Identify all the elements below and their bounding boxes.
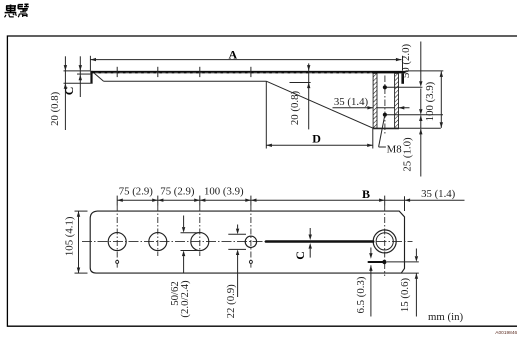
bracket vertical centerline [384, 76, 386, 134]
svg-text:100 (3.9): 100 (3.9) [204, 186, 244, 198]
dimension 22 (0.9) [236, 225, 239, 298]
arm bottom edge line [104, 80, 267, 82]
diagonal taper to bracket [266, 81, 373, 128]
svg-text:100 (3.9): 100 (3.9) [424, 81, 436, 121]
dimension A line with arrows [90, 58, 401, 61]
svg-text:B: B [362, 187, 370, 201]
svg-text:75 (2.9): 75 (2.9) [160, 186, 195, 198]
label 35 (1.4) right [421, 188, 456, 200]
hole 1 [108, 233, 126, 251]
svg-text:C: C [62, 87, 76, 96]
M8 hole lower (section dot) [383, 113, 387, 117]
dimension D extension lines [266, 81, 373, 148]
svg-text:20 (0.8): 20 (0.8) [49, 91, 61, 126]
bottom edge extension stub for middle 20-dim [290, 82, 311, 84]
small slot bottom right [369, 261, 383, 263]
label 35 (1.4) [334, 96, 369, 108]
label 20 (0.8) middle (rotated) [289, 91, 301, 126]
M8 hole upper (section dot) [383, 85, 387, 89]
dimension 100 (3.9) [440, 71, 443, 128]
mounting bracket left wall (hatched section) [373, 73, 377, 128]
bottom extension line to 100-dim [399, 127, 441, 129]
chain dimension extension ticks [117, 196, 404, 211]
svg-text:25 (1.0): 25 (1.0) [402, 137, 414, 172]
svg-text:mm (in): mm (in) [428, 311, 463, 323]
dimension 20 (0.8) middle [307, 63, 310, 129]
svg-text:75 (2.9): 75 (2.9) [119, 186, 154, 198]
hole 5 inner [376, 233, 393, 250]
mounting bracket right wall (hatched section) [395, 73, 399, 128]
dimension C left [79, 56, 82, 97]
pilot hole under hole 1 [116, 260, 119, 263]
hook bottom / 20-dim extension line [64, 82, 93, 84]
top surface extension stub (left) [64, 70, 91, 72]
label 105 (4.1) (rotated) [63, 216, 75, 256]
small slot end dot [382, 260, 386, 264]
dimension 35 (1.4) line through bracket [333, 106, 410, 109]
title glyph XUAN (cantilever char 1) [4, 4, 16, 17]
slot extension line to 15-dim [387, 261, 419, 263]
label 50/62 (rotated, two columns) [169, 280, 191, 318]
label M8 [387, 143, 402, 155]
cantilever arm top plate (side view bar) [90, 71, 405, 74]
title glyph BI (cantilever char 2) [18, 4, 29, 17]
hole centerline ticks on arm [117, 67, 251, 77]
label B [362, 187, 370, 201]
label D [312, 131, 321, 145]
plate outline (top view) [90, 211, 404, 273]
svg-text:(2.0/2.4): (2.0/2.4) [179, 280, 191, 318]
dimension 50/62 [182, 216, 185, 273]
dimension A extension lines [90, 56, 402, 71]
horizontal centerline [82, 241, 413, 243]
label 75 (2.9) first [119, 186, 154, 198]
hole 3 [191, 233, 209, 251]
hole 2 [149, 233, 167, 251]
upper hole line to 50-dim [387, 86, 423, 88]
arm taper chamfer at left [94, 73, 103, 81]
label 100 (3.9) chain [204, 186, 244, 198]
label C slot (rotated bold) [293, 251, 307, 260]
hole 5 outer [373, 230, 396, 253]
left hook of arm [90, 71, 92, 83]
label 100 (3.9) (rotated) [424, 81, 436, 121]
dimension 25 (1.0) [419, 129, 422, 177]
svg-text:A: A [228, 47, 237, 61]
hole 3 tangent stubs for 50/62 dim [181, 233, 201, 251]
plate underside stub for C dim [77, 73, 90, 75]
label 15 (0.6) (rotated) [399, 278, 411, 313]
dimension 50 (2.0) [419, 42, 422, 87]
dimension 6.5 (0.3) [369, 248, 372, 317]
svg-text:A0019846: A0019846 [495, 330, 517, 336]
dimension D line [266, 144, 373, 147]
label 25 (1.0) (rotated) [402, 137, 414, 172]
dimension 15 (0.6) [415, 249, 418, 317]
label A [228, 47, 237, 61]
small segment between hole line and bracket bottom [419, 115, 422, 128]
vertical centerlines of holes [117, 206, 385, 277]
svg-text:35 (1.4): 35 (1.4) [334, 96, 369, 108]
hole 4 tangent stubs for 22 dim [228, 234, 246, 249]
bottom edge extension line to 15-dim [401, 272, 419, 274]
svg-text:22 (0.9): 22 (0.9) [225, 284, 237, 319]
top surface extension stub to 100-dim [406, 70, 444, 72]
top chain dimension line [117, 199, 464, 202]
label 50 (2.0) (rotated) [400, 44, 412, 79]
M8 leader line [379, 116, 386, 147]
drawing id [495, 330, 517, 336]
lower hole line to 25-dim [387, 114, 443, 116]
svg-text:D: D [312, 131, 321, 145]
label 20 (0.8) left (rotated) [49, 91, 61, 126]
svg-text:105 (4.1): 105 (4.1) [63, 216, 75, 256]
hole 4 [245, 236, 256, 247]
svg-text:35 (1.4): 35 (1.4) [421, 188, 456, 200]
right hook of arm [401, 73, 404, 83]
dimension 20 (0.8) left [64, 56, 67, 130]
long slot [266, 240, 373, 243]
svg-text:50 (2.0): 50 (2.0) [400, 44, 412, 79]
outside arrow to lower hole line [419, 89, 422, 115]
svg-text:6.5 (0.3): 6.5 (0.3) [355, 276, 367, 313]
label 6.5 (0.3) (rotated) [355, 276, 367, 313]
label 75 (2.9) second [160, 186, 195, 198]
svg-text:M8: M8 [387, 143, 402, 155]
label C (rotated bold) [62, 87, 76, 96]
dimension C slot width [309, 228, 312, 258]
svg-text:15 (0.6): 15 (0.6) [399, 278, 411, 313]
pilot hole under hole 4 [249, 260, 252, 263]
dimension 105 (4.1) [75, 211, 88, 273]
units label mm (in) [428, 311, 463, 323]
label 22 (0.9) (rotated) [225, 284, 237, 319]
bracket bottom edge [373, 127, 399, 129]
svg-text:C: C [293, 251, 307, 260]
